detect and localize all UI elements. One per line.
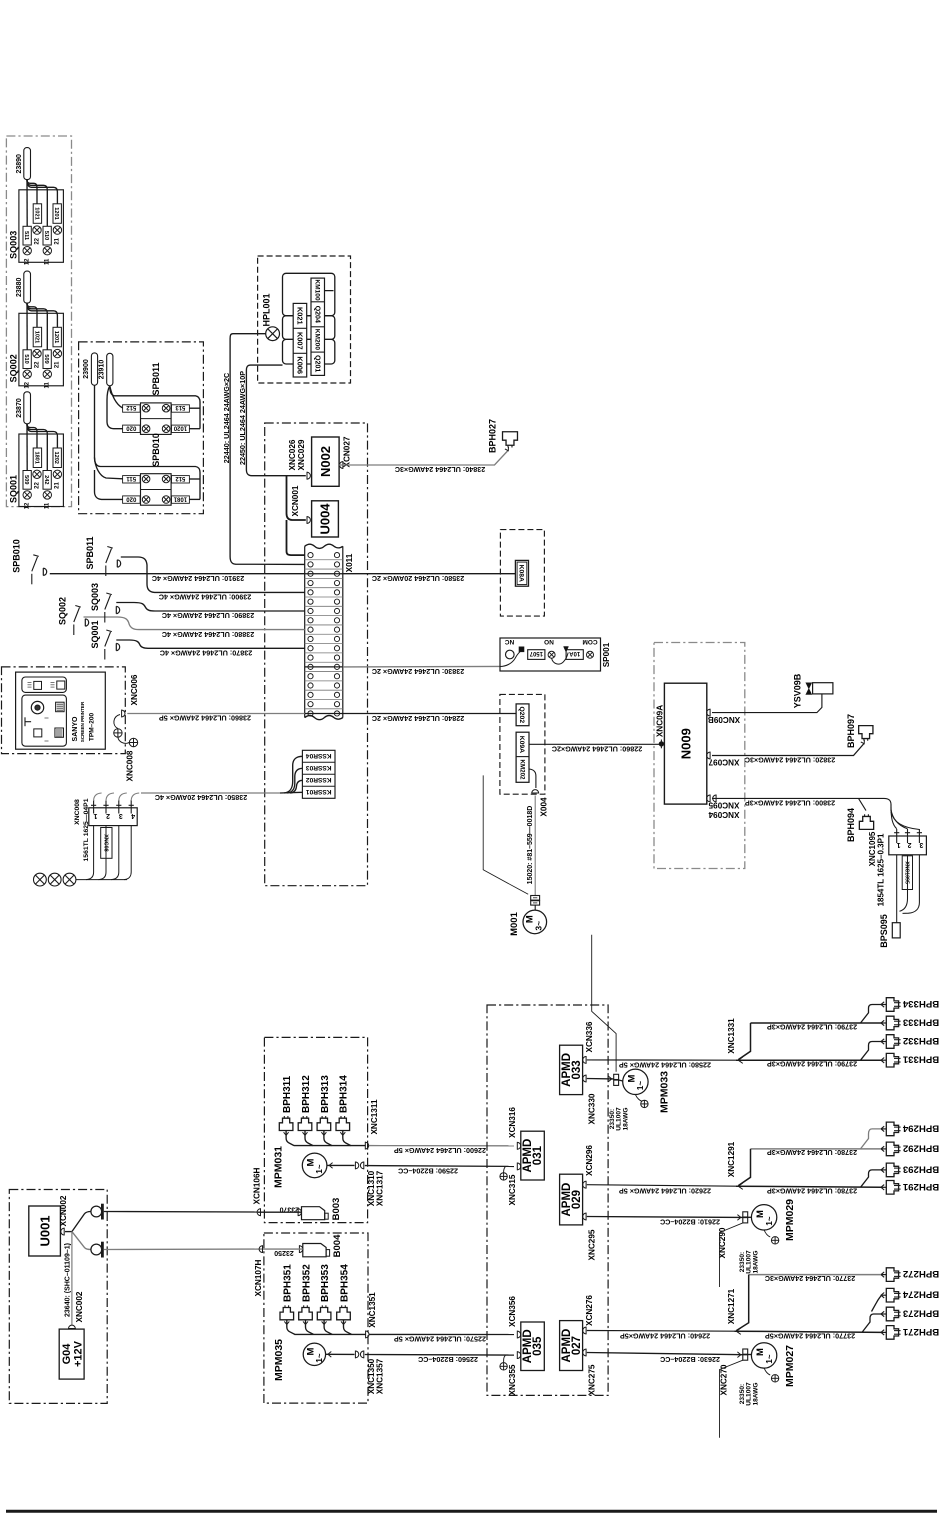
svg-text:15020: #81–559—0018D: 15020: #81–559—0018D (527, 806, 534, 885)
svg-text:XCN106H: XCN106H (252, 1167, 261, 1204)
svg-text:031: 031 (532, 1145, 544, 1165)
svg-text:BPH331: BPH331 (902, 1054, 939, 1065)
svg-text:23850: UL2464 20AWG× 4C: 23850: UL2464 20AWG× 4C (155, 793, 248, 802)
svg-text:K007: K007 (295, 332, 304, 350)
svg-text:3~: 3~ (534, 921, 544, 931)
svg-text:XNC1357: XNC1357 (375, 1358, 384, 1394)
svg-text:BPH334: BPH334 (902, 998, 939, 1009)
svg-text:XCN296: XCN296 (585, 1145, 594, 1176)
svg-text:18AWG: 18AWG (752, 1382, 759, 1405)
svg-text:23880: 23880 (16, 277, 23, 297)
svg-text:HPL001: HPL001 (262, 293, 272, 326)
svg-text:XNC097: XNC097 (708, 757, 739, 766)
svg-text:NO: NO (544, 638, 554, 645)
svg-text:MPM029: MPM029 (784, 1199, 796, 1241)
svg-text:BPH352: BPH352 (301, 1264, 312, 1302)
svg-text:22600: UL2464 24AWG× 5P: 22600: UL2464 24AWG× 5P (394, 1146, 486, 1155)
svg-text:BPH097: BPH097 (846, 714, 856, 748)
svg-text:BPH274: BPH274 (902, 1289, 939, 1300)
svg-text:U004: U004 (318, 503, 333, 535)
svg-text:K08A: K08A (518, 565, 525, 582)
svg-text:23770: UL2464 24AWG×5P: 23770: UL2464 24AWG×5P (765, 1332, 855, 1341)
svg-text:1~: 1~ (765, 1216, 774, 1225)
svg-text:23640: (SHC–01109–1): 23640: (SHC–01109–1) (65, 1243, 72, 1317)
svg-text:MPM031: MPM031 (272, 1146, 284, 1188)
svg-text:K021: K021 (295, 307, 304, 325)
svg-text:1854TL 1625–0.3P1: 1854TL 1625–0.3P1 (876, 833, 885, 906)
svg-text:XNC006: XNC006 (130, 674, 139, 705)
svg-text:22440: UL2464 24AWG×2C: 22440: UL2464 24AWG×2C (222, 373, 231, 464)
svg-text:BPH314: BPH314 (339, 1075, 350, 1113)
svg-text:22620: UL2464 24AWG× 5P: 22620: UL2464 24AWG× 5P (619, 1186, 711, 1195)
svg-text:510: 510 (23, 354, 29, 363)
svg-text:23870: UL2464 24AWG× 4C: 23870: UL2464 24AWG× 4C (160, 649, 253, 658)
svg-text:22590: B2204–CC: 22590: B2204–CC (398, 1166, 458, 1175)
svg-text:1020: 1020 (173, 425, 187, 431)
svg-text:SPB010: SPB010 (151, 433, 161, 467)
svg-text:MPM027: MPM027 (784, 1345, 796, 1387)
svg-text:22: 22 (34, 482, 40, 489)
svg-text:1~: 1~ (765, 1354, 774, 1363)
svg-text:23820: UL2464 24AWG×3C: 23820: UL2464 24AWG×3C (745, 756, 836, 765)
svg-text:22450: UL2464 24AWG×10P: 22450: UL2464 24AWG×10P (238, 371, 247, 465)
svg-text:BPH273: BPH273 (903, 1308, 939, 1319)
svg-text:BPH333: BPH333 (903, 1017, 939, 1028)
svg-text:1: 1 (897, 841, 901, 848)
svg-text:23900: 23900 (83, 359, 90, 379)
svg-text:XNC008: XNC008 (74, 799, 81, 825)
svg-text:2: 2 (907, 841, 911, 848)
svg-text:1507: 1507 (529, 650, 543, 656)
svg-text:BPH271: BPH271 (902, 1326, 939, 1337)
svg-text:12: 12 (24, 381, 30, 388)
svg-text:23910: 23910 (99, 360, 106, 380)
svg-text:020: 020 (126, 495, 137, 501)
svg-text:XNC08: XNC08 (102, 834, 108, 851)
svg-text:BPH027: BPH027 (488, 419, 498, 453)
svg-text:4: 4 (131, 812, 135, 819)
svg-text:XCN001: XCN001 (291, 485, 300, 516)
svg-text:12: 12 (24, 502, 30, 509)
svg-text:KSSR01: KSSR01 (306, 788, 332, 795)
svg-text:KSSR02: KSSR02 (306, 776, 332, 783)
svg-text:SQ003: SQ003 (90, 583, 100, 611)
svg-text:XNC1351: XNC1351 (368, 1292, 377, 1328)
svg-text:23870: 23870 (16, 398, 23, 418)
svg-text:21: 21 (55, 361, 61, 368)
svg-text:22570: UL2464 24AWG× 5P: 22570: UL2464 24AWG× 5P (394, 1335, 486, 1344)
svg-text:23840: UL2464 24AWG×3C: 23840: UL2464 24AWG×3C (395, 465, 486, 474)
svg-text:COM: COM (582, 638, 597, 645)
svg-text:509: 509 (23, 475, 29, 484)
svg-text:B004: B004 (332, 1234, 343, 1257)
svg-text:KM100: KM100 (313, 279, 320, 301)
svg-text:3: 3 (119, 812, 123, 819)
svg-text:XNC1271: XNC1271 (727, 1288, 736, 1324)
svg-text:242: 242 (43, 475, 49, 484)
svg-text:1561TL 1625—04P1: 1561TL 1625—04P1 (83, 798, 90, 861)
svg-text:BPH291: BPH291 (902, 1181, 939, 1192)
svg-text:U001: U001 (37, 1215, 52, 1246)
svg-text:YSV09B: YSV09B (793, 673, 803, 708)
svg-text:SP001: SP001 (602, 642, 611, 667)
svg-text:XNC1331: XNC1331 (727, 1018, 736, 1054)
svg-text:XCN276: XCN276 (585, 1295, 594, 1326)
svg-text:SANYO: SANYO (72, 716, 79, 741)
svg-text:X004: X004 (539, 797, 548, 817)
svg-text:SCREEN PRINTER: SCREEN PRINTER (80, 701, 85, 742)
svg-text:XNC1095: XNC1095 (904, 861, 910, 884)
svg-text:BPH353: BPH353 (320, 1264, 331, 1302)
svg-text:21: 21 (55, 482, 61, 489)
svg-text:23910: UL2464 24AWG× 4C: 23910: UL2464 24AWG× 4C (152, 574, 245, 583)
svg-text:1021: 1021 (33, 207, 39, 219)
svg-text:1801: 1801 (33, 451, 39, 463)
svg-text:KSSR04: KSSR04 (306, 752, 332, 759)
svg-text:+12V: +12V (72, 1340, 84, 1367)
svg-text:18AWG: 18AWG (622, 1107, 629, 1130)
svg-text:027: 027 (571, 1336, 583, 1355)
svg-text:1201: 1201 (53, 331, 59, 343)
svg-text:XNC1311: XNC1311 (370, 1099, 379, 1134)
svg-text:11: 11 (44, 258, 50, 265)
svg-text:18AWG: 18AWG (752, 1250, 759, 1273)
svg-text:XNC275: XNC275 (587, 1364, 596, 1395)
svg-text:XCN336: XCN336 (585, 1021, 594, 1052)
svg-text:1081: 1081 (173, 495, 187, 501)
svg-text:1: 1 (94, 812, 98, 819)
svg-text:2: 2 (106, 812, 110, 819)
svg-text:22840: UL2464 24AWG× 2C: 22840: UL2464 24AWG× 2C (372, 714, 465, 723)
svg-text:KM202: KM202 (518, 760, 525, 781)
svg-text:XNC002: XNC002 (75, 1291, 84, 1322)
svg-text:XCN356: XCN356 (508, 1296, 517, 1327)
svg-text:Q201: Q201 (313, 355, 320, 372)
svg-text:11: 11 (44, 502, 50, 509)
svg-text:511: 511 (23, 231, 29, 240)
svg-text:BPH293: BPH293 (903, 1163, 939, 1174)
svg-text:KM200: KM200 (313, 329, 320, 351)
svg-text:23890: UL2464 24AWG× 4C: 23890: UL2464 24AWG× 4C (162, 611, 255, 620)
svg-text:N009: N009 (678, 728, 693, 759)
svg-text:XNC330: XNC330 (587, 1093, 596, 1124)
svg-text:1201: 1201 (53, 207, 59, 219)
svg-text:BPH354: BPH354 (339, 1264, 350, 1302)
svg-text:23780: UL2464 24AWG×3P: 23780: UL2464 24AWG×3P (767, 1148, 857, 1157)
svg-text:511: 511 (126, 475, 136, 481)
svg-text:509: 509 (43, 354, 49, 363)
svg-text:1~: 1~ (315, 1164, 324, 1173)
svg-text:BPH351: BPH351 (283, 1264, 294, 1302)
svg-text:MPM035: MPM035 (273, 1339, 285, 1381)
svg-text:035: 035 (532, 1336, 544, 1356)
svg-text:XCN027: XCN027 (342, 436, 351, 467)
svg-text:22640: UL2464 24AWG×5P: 22640: UL2464 24AWG×5P (620, 1331, 710, 1340)
svg-text:029: 029 (571, 1190, 583, 1209)
svg-text:SQ002: SQ002 (9, 354, 19, 382)
svg-text:BPH313: BPH313 (320, 1075, 331, 1113)
svg-text:BPS095: BPS095 (879, 914, 889, 948)
svg-text:23790: UL2464 24AWG×3P: 23790: UL2464 24AWG×3P (767, 1022, 857, 1031)
svg-text:22580: UL2464 24AWG× 5P: 22580: UL2464 24AWG× 5P (619, 1060, 711, 1069)
svg-text:23860: UL2464 24AWG× 5P: 23860: UL2464 24AWG× 5P (159, 714, 251, 723)
svg-text:SQ002: SQ002 (58, 597, 68, 625)
svg-text:513: 513 (175, 404, 186, 410)
svg-text:XCN002: XCN002 (59, 1195, 68, 1226)
svg-text:512: 512 (126, 404, 137, 410)
svg-text:XNC008: XNC008 (125, 750, 134, 781)
svg-text:SQ001: SQ001 (90, 620, 100, 648)
svg-text:XNC026: XNC026 (288, 439, 297, 470)
svg-text:MPM033: MPM033 (658, 1071, 670, 1113)
svg-text:23580: UL2464 20AWG× 2C: 23580: UL2464 20AWG× 2C (372, 574, 465, 583)
svg-text:XCN316: XCN316 (508, 1107, 517, 1138)
svg-text:020: 020 (126, 425, 137, 431)
svg-text:SQ003: SQ003 (9, 231, 19, 259)
svg-text:BPH292: BPH292 (903, 1142, 939, 1153)
svg-text:BPH332: BPH332 (903, 1035, 939, 1046)
svg-text:22610: B2204–CC: 22610: B2204–CC (660, 1218, 720, 1227)
svg-text:SPB011: SPB011 (85, 536, 95, 569)
svg-text:N002: N002 (318, 446, 333, 477)
svg-text:23900: UL2464 24AWG× 4C: 23900: UL2464 24AWG× 4C (159, 593, 252, 602)
svg-text:22630: B2204–CC: 22630: B2204–CC (660, 1355, 720, 1364)
svg-text:21: 21 (55, 237, 61, 244)
svg-text:3: 3 (919, 841, 923, 848)
svg-text:23890: 23890 (16, 154, 23, 174)
svg-text:23880: UL2464 24AWG× 4C: 23880: UL2464 24AWG× 4C (162, 630, 255, 639)
svg-text:BPH272: BPH272 (903, 1268, 939, 1279)
svg-text:SQ001: SQ001 (9, 475, 19, 503)
svg-text:SPB010: SPB010 (12, 539, 22, 573)
svg-text:10A: 10A (569, 650, 581, 656)
svg-text:23800: UL2464 24AWG×3P: 23800: UL2464 24AWG×3P (745, 799, 835, 808)
svg-text:23780: UL2464 24AWG×3P: 23780: UL2464 24AWG×3P (767, 1187, 857, 1196)
svg-text:SPB011: SPB011 (151, 362, 161, 395)
svg-text:1202: 1202 (53, 451, 59, 463)
svg-text:1021: 1021 (33, 331, 39, 343)
svg-text:XNC1317: XNC1317 (375, 1170, 384, 1206)
svg-text:Q202: Q202 (518, 706, 525, 723)
svg-text:XNC1291: XNC1291 (727, 1141, 736, 1177)
svg-text:M001: M001 (509, 911, 520, 935)
svg-text:1~: 1~ (636, 1081, 645, 1090)
svg-text:BPH312: BPH312 (301, 1075, 312, 1113)
svg-text:XCN107H: XCN107H (254, 1259, 263, 1296)
svg-text:G04: G04 (61, 1343, 73, 1365)
svg-text:12: 12 (24, 258, 30, 265)
svg-text:X011: X011 (345, 553, 354, 572)
svg-text:033: 033 (571, 1060, 583, 1079)
svg-text:BPH311: BPH311 (282, 1075, 293, 1113)
svg-text:NC: NC (505, 638, 515, 645)
svg-text:XNC094: XNC094 (708, 810, 739, 819)
svg-text:XNC029: XNC029 (297, 439, 306, 470)
svg-text:11: 11 (44, 381, 50, 388)
svg-text:XNC09A: XNC09A (655, 705, 664, 737)
svg-text:TPM–200: TPM–200 (88, 713, 95, 742)
svg-text:XNC355: XNC355 (508, 1364, 517, 1395)
svg-text:512: 512 (175, 475, 186, 481)
svg-text:KSSR03: KSSR03 (306, 764, 332, 771)
svg-text:XNC09B: XNC09B (708, 715, 740, 724)
svg-text:K09A: K09A (518, 736, 525, 753)
svg-text:22560: B2204–CC: 22560: B2204–CC (418, 1355, 478, 1364)
svg-text:22: 22 (34, 361, 40, 368)
svg-text:23250: 23250 (274, 1249, 294, 1256)
svg-text:B003: B003 (331, 1198, 342, 1221)
svg-text:23830: UL2464 24AWG× 2C: 23830: UL2464 24AWG× 2C (372, 667, 465, 676)
svg-text:22860: UL2464 24AWG×2C: 22860: UL2464 24AWG×2C (552, 745, 643, 754)
svg-text:BPH094: BPH094 (846, 808, 856, 842)
svg-text:XNC315: XNC315 (508, 1174, 517, 1205)
svg-text:XNC095: XNC095 (708, 801, 739, 810)
svg-text:22: 22 (34, 237, 40, 244)
svg-text:510: 510 (43, 231, 49, 240)
svg-text:XNC295: XNC295 (587, 1229, 596, 1260)
svg-text:BPH294: BPH294 (902, 1122, 939, 1133)
svg-text:23770: UL2464 24AWG×3C: 23770: UL2464 24AWG×3C (765, 1274, 856, 1283)
svg-text:Q204: Q204 (313, 306, 320, 323)
svg-text:1~: 1~ (315, 1353, 324, 1362)
svg-text:23790: UL2464 24AWG×3P: 23790: UL2464 24AWG×3P (767, 1060, 857, 1069)
svg-text:K006: K006 (295, 356, 304, 374)
